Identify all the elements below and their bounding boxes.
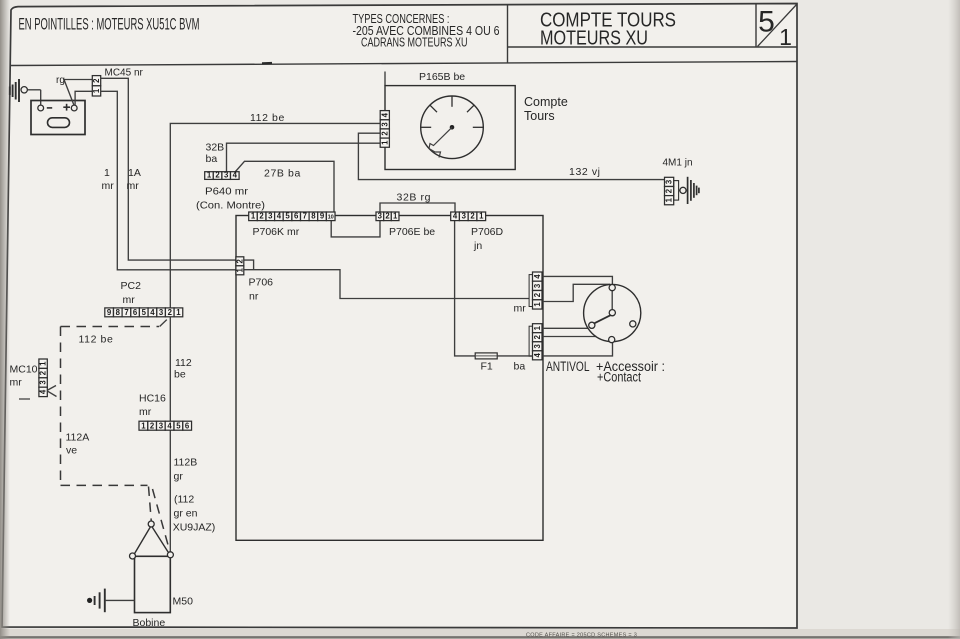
wire 112 be : tacho pin3 left and long vertical down to coil bbox=[170, 123, 380, 552]
fuse F1 bbox=[475, 353, 497, 359]
svg-text:1: 1 bbox=[92, 88, 101, 93]
svg-text:P640 mr: P640 mr bbox=[205, 186, 249, 198]
svg-text:CADRANS MOTEURS XU: CADRANS MOTEURS XU bbox=[361, 35, 468, 50]
connector HC16 bbox=[139, 421, 192, 430]
svg-text:3: 3 bbox=[159, 421, 164, 430]
svg-text:MOTEURS XU: MOTEURS XU bbox=[540, 27, 648, 50]
ground (battery earth) bbox=[18, 79, 20, 102]
page number diagonal bbox=[758, 4, 798, 47]
dashed drop to coil apex bbox=[149, 487, 152, 522]
svg-text:4: 4 bbox=[453, 212, 458, 221]
svg-text:4: 4 bbox=[277, 212, 282, 221]
svg-text:7: 7 bbox=[124, 308, 128, 317]
scan margins bbox=[0, 629, 960, 639]
svg-text:Tours: Tours bbox=[524, 109, 555, 123]
svg-text:CODE AFFAIRE = 205CD SCHEMES =: CODE AFFAIRE = 205CD SCHEMES = 3 bbox=[526, 633, 637, 639]
wire: lower connector pin2 to switch rim bbox=[542, 336, 597, 338]
contact: top bbox=[609, 285, 615, 291]
svg-text:5: 5 bbox=[176, 421, 181, 430]
svg-text:5: 5 bbox=[758, 6, 775, 39]
svg-text:be: be bbox=[174, 369, 186, 381]
svg-text:gr en: gr en bbox=[174, 508, 198, 520]
svg-text:112 be: 112 be bbox=[250, 112, 285, 124]
svg-text:3: 3 bbox=[39, 380, 48, 385]
svg-text:32B rg: 32B rg bbox=[397, 192, 432, 204]
svg-text:PC2: PC2 bbox=[121, 280, 142, 292]
wire: earth to battery - bbox=[40, 90, 42, 105]
svg-text:M50: M50 bbox=[173, 596, 194, 608]
svg-text:4M1 jn: 4M1 jn bbox=[663, 158, 693, 169]
pointer tick to PC2 bbox=[160, 320, 167, 327]
connector P640 (Con. Montre) bbox=[205, 171, 239, 180]
stray dash mark bbox=[19, 398, 30, 400]
wire: ANTIVOL top connector pin4 to switch top contact bbox=[542, 276, 612, 284]
svg-text:1: 1 bbox=[479, 212, 484, 221]
svg-text:MC45 nr: MC45 nr bbox=[105, 68, 144, 79]
svg-text:nr: nr bbox=[249, 291, 259, 303]
svg-text:3: 3 bbox=[159, 308, 164, 317]
svg-text:rg: rg bbox=[56, 75, 65, 86]
svg-text:ba: ba bbox=[206, 153, 218, 165]
connector MC10 bbox=[39, 359, 48, 397]
svg-text:32B: 32B bbox=[206, 142, 225, 154]
gauge needle bbox=[429, 127, 452, 157]
svg-text:(Con. Montre): (Con. Montre) bbox=[196, 200, 265, 212]
svg-text:132 vj: 132 vj bbox=[569, 166, 601, 178]
connector of tacho P165B (pins 4,3,2,1) bbox=[380, 111, 389, 148]
svg-text:2: 2 bbox=[380, 131, 389, 136]
connector P706 bbox=[235, 257, 244, 275]
svg-text:mr: mr bbox=[514, 303, 527, 315]
svg-text:2: 2 bbox=[470, 212, 475, 221]
ANTIVOL upper connector housing bbox=[529, 275, 532, 307]
ANTIVOL upper connector mr bbox=[533, 272, 543, 309]
svg-text:1: 1 bbox=[141, 421, 146, 430]
svg-text:1: 1 bbox=[39, 361, 48, 366]
wire 132 vj : tacho pin2 to ground connector 4M1 bbox=[358, 133, 664, 179]
svg-text:112A: 112A bbox=[66, 432, 90, 444]
svg-text:ve: ve bbox=[66, 445, 77, 457]
wire: F1 feed through pin4 to bottom contact bbox=[542, 343, 613, 356]
svg-text:10: 10 bbox=[328, 215, 334, 221]
svg-text:6: 6 bbox=[133, 308, 138, 317]
svg-text:2: 2 bbox=[385, 212, 390, 221]
ANTIVOL lower connector bbox=[533, 324, 543, 360]
wire rg: MC45 to battery + bbox=[64, 80, 92, 106]
svg-text:EN POINTILLES : MOTEURS XU51C: EN POINTILLES : MOTEURS XU51C BVM bbox=[19, 16, 200, 34]
coil terminal top bbox=[148, 521, 154, 527]
harness junction box bbox=[236, 216, 543, 541]
svg-text:1: 1 bbox=[533, 325, 542, 330]
connector MC45 bbox=[92, 76, 101, 96]
svg-text:Bobine: Bobine bbox=[133, 617, 166, 629]
battery bbox=[31, 101, 85, 135]
connector P706E bbox=[376, 212, 399, 221]
wire: earth to coil bbox=[105, 599, 135, 601]
wire 32B ba : P640 pin3 up to tacho pin1 bbox=[227, 143, 381, 171]
svg-text:2: 2 bbox=[215, 171, 220, 180]
svg-text:ba: ba bbox=[514, 361, 526, 373]
svg-text:6: 6 bbox=[294, 212, 299, 221]
ignition switch rotor (ANTIVOL) bbox=[584, 284, 641, 341]
svg-text:27B ba: 27B ba bbox=[264, 168, 301, 180]
svg-text:P706D: P706D bbox=[471, 226, 504, 238]
coil triangle bbox=[133, 526, 151, 556]
svg-text:9: 9 bbox=[320, 212, 325, 221]
svg-text:2: 2 bbox=[665, 188, 674, 193]
svg-text:1: 1 bbox=[251, 212, 256, 221]
svg-text:112: 112 bbox=[175, 357, 192, 369]
contact: accessory bbox=[589, 322, 595, 328]
svg-text:2: 2 bbox=[533, 292, 542, 297]
svg-text:3: 3 bbox=[462, 212, 467, 221]
svg-text:P165B be: P165B be bbox=[419, 71, 465, 83]
jumper P706K pin10 to P706E pin3 bbox=[331, 221, 380, 237]
svg-text:3: 3 bbox=[378, 212, 383, 221]
wire P706D pin4 down to fuse F1 bbox=[455, 221, 476, 356]
svg-text:8: 8 bbox=[311, 212, 316, 221]
svg-text:1: 1 bbox=[235, 267, 244, 272]
ANTIVOL lower connector housing bbox=[529, 326, 532, 356]
wire 1 mr: MC45 pin1 down to P706 pin1 bbox=[101, 91, 236, 269]
svg-text:+Contact: +Contact bbox=[597, 370, 641, 385]
contact: bottom bbox=[609, 337, 615, 343]
dashed drop to coil terminal bbox=[153, 489, 170, 550]
svg-text:mr: mr bbox=[10, 377, 23, 389]
svg-text:MC10: MC10 bbox=[10, 364, 38, 376]
svg-text:3: 3 bbox=[224, 171, 229, 180]
svg-text:P706E be: P706E be bbox=[389, 226, 435, 238]
connector P706D bbox=[451, 212, 486, 221]
svg-text:112B: 112B bbox=[174, 457, 198, 469]
svg-text:4: 4 bbox=[380, 112, 389, 117]
svg-text:mr: mr bbox=[127, 180, 140, 192]
connector P706K (10 pins) bbox=[249, 212, 335, 221]
svg-text:mr: mr bbox=[102, 180, 115, 192]
svg-text:1: 1 bbox=[665, 197, 674, 202]
svg-text:F1: F1 bbox=[481, 361, 493, 373]
svg-text:1: 1 bbox=[207, 171, 212, 180]
svg-text:2: 2 bbox=[259, 212, 264, 221]
title block dividers bbox=[507, 5, 509, 63]
svg-text:3: 3 bbox=[533, 343, 542, 348]
svg-text:HC16: HC16 bbox=[139, 393, 166, 405]
svg-text:2: 2 bbox=[168, 308, 173, 317]
svg-text:4: 4 bbox=[533, 274, 542, 279]
coil terminal right bbox=[167, 552, 173, 558]
svg-text:(112: (112 bbox=[174, 494, 194, 506]
svg-text:2: 2 bbox=[533, 334, 542, 339]
svg-text:4: 4 bbox=[533, 352, 542, 357]
svg-text:mr: mr bbox=[123, 294, 136, 306]
contact: right bbox=[630, 321, 636, 327]
svg-text:ANTIVOL: ANTIVOL bbox=[546, 359, 590, 374]
svg-text:4: 4 bbox=[39, 389, 48, 394]
svg-text:8: 8 bbox=[116, 308, 121, 317]
svg-text:1: 1 bbox=[104, 167, 110, 179]
pointer ticks MC10 bbox=[48, 386, 56, 391]
wire: F1 to ANTIVOL pin4 bbox=[497, 355, 532, 357]
svg-text:3: 3 bbox=[665, 179, 674, 184]
switch lever bbox=[594, 315, 610, 323]
svg-text:P706: P706 bbox=[249, 277, 274, 289]
svg-text:6: 6 bbox=[185, 421, 190, 430]
coil Bobine bbox=[135, 556, 171, 612]
svg-text:1: 1 bbox=[393, 212, 398, 221]
wire: ANTIVOL top connector pin1 to switch top contact bbox=[542, 284, 610, 301]
svg-text:4: 4 bbox=[233, 171, 238, 180]
svg-text:1: 1 bbox=[533, 302, 542, 307]
wire: MC45 pin1 to battery + bbox=[75, 91, 92, 105]
4M1 housing bbox=[674, 181, 679, 201]
wire: lower connector pin1 to accessory contact bbox=[542, 327, 589, 329]
svg-text:112 be: 112 be bbox=[79, 334, 114, 346]
svg-text:4: 4 bbox=[150, 308, 155, 317]
svg-text:1: 1 bbox=[380, 140, 389, 145]
svg-text:2: 2 bbox=[39, 370, 48, 375]
wire 32B rg bridge P706E pin3 to P706D pin4 bbox=[380, 203, 455, 212]
tachometer unit P165B (Compte Tours) bbox=[384, 72, 386, 86]
gauge dial bbox=[421, 96, 484, 159]
connector PC2 (9 pins) bbox=[105, 308, 183, 317]
svg-text:mr: mr bbox=[139, 406, 152, 418]
svg-text:4: 4 bbox=[167, 421, 172, 430]
wire 1A mr: MC45 pin2 down to P706 pin2 bbox=[101, 78, 236, 260]
wire: P706 pins to ANTIVOL feed bbox=[244, 260, 254, 270]
dashed wire down bbox=[60, 327, 62, 486]
dashed wire to coil bbox=[61, 484, 148, 486]
dashed wire 112 be (XU51C option) bbox=[61, 326, 160, 328]
svg-text:XU9JAZ): XU9JAZ) bbox=[173, 522, 216, 534]
svg-text:jn: jn bbox=[473, 240, 482, 252]
svg-text:1A: 1A bbox=[128, 167, 141, 179]
connector 4M1 bbox=[665, 177, 674, 204]
svg-text:3: 3 bbox=[268, 212, 273, 221]
wire 27B ba : P640 pin4 to P706K pin10 bbox=[236, 161, 335, 212]
svg-text:9: 9 bbox=[107, 308, 112, 317]
svg-text:1: 1 bbox=[779, 24, 792, 50]
svg-text:2: 2 bbox=[235, 258, 244, 263]
svg-text:gr: gr bbox=[174, 471, 184, 483]
ground M1 bbox=[687, 177, 689, 204]
svg-text:5: 5 bbox=[285, 212, 290, 221]
svg-text:2: 2 bbox=[150, 421, 155, 430]
svg-text:3: 3 bbox=[380, 122, 389, 127]
svg-text:5: 5 bbox=[142, 308, 147, 317]
svg-text:3: 3 bbox=[533, 283, 542, 288]
svg-text:7: 7 bbox=[303, 212, 307, 221]
svg-text:Compte: Compte bbox=[524, 95, 568, 109]
svg-text:2: 2 bbox=[92, 78, 101, 83]
ground M50 bbox=[87, 598, 92, 603]
svg-text:1: 1 bbox=[176, 308, 181, 317]
coil terminal left bbox=[130, 553, 136, 559]
svg-text:P706K mr: P706K mr bbox=[253, 226, 300, 238]
contact: center bbox=[609, 310, 615, 316]
